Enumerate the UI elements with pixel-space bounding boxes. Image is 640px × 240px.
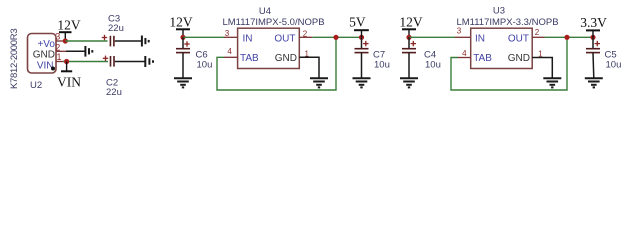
pin stub OUT (U4) xyxy=(299,36,312,38)
svg-text:3.3V: 3.3V xyxy=(580,15,607,30)
ground (down, C4) xyxy=(400,78,418,87)
svg-text:4: 4 xyxy=(227,47,232,56)
svg-text:GND: GND xyxy=(275,53,297,64)
pin name OUT (U3) xyxy=(508,34,529,45)
ground (down, C5) xyxy=(585,78,603,87)
capacitor C6 plus sign xyxy=(184,41,189,46)
capacitor C7 drop wire xyxy=(361,37,363,48)
junction node 3.3V (U3) xyxy=(590,35,595,40)
pin stub 2 (U2) xyxy=(56,50,66,52)
wire C6 to ground xyxy=(182,53,184,78)
svg-text:22u: 22u xyxy=(108,23,124,34)
U2 refdes label xyxy=(30,80,42,91)
svg-text:4: 4 xyxy=(462,49,467,58)
wire GND row (U2) xyxy=(66,50,85,52)
pin number 3 (U2) xyxy=(55,32,60,42)
capacitor C2 refdes label xyxy=(106,78,118,89)
svg-text:12V: 12V xyxy=(399,15,423,30)
capacitor C2 plus sign xyxy=(103,56,108,61)
pin name +Vo xyxy=(37,39,55,50)
capacitor C6 refdes label xyxy=(196,50,208,61)
12V supply label (left) xyxy=(57,17,81,32)
12V supply label (U4) xyxy=(169,15,193,30)
capacitor C3 plates xyxy=(110,36,114,47)
pin number 1 (U2) xyxy=(56,52,61,62)
12V supply label (U3) xyxy=(399,15,423,30)
ground (down, C7) xyxy=(353,78,371,87)
ground (down, U3 GND) xyxy=(543,78,561,87)
svg-text:GND: GND xyxy=(508,53,530,64)
capacitor C2 plates xyxy=(111,56,115,67)
ERC dot on VIN pin xyxy=(51,67,55,71)
pin stub IN (U3) xyxy=(455,36,471,38)
3.3V supply label xyxy=(580,15,607,30)
U4 body xyxy=(238,28,300,68)
connector U2 refdes text K7812-2000R3 xyxy=(9,29,20,89)
VIN net label xyxy=(57,75,81,90)
svg-text:VIN: VIN xyxy=(37,61,54,72)
5V supply label xyxy=(349,15,366,30)
svg-text:TAB: TAB xyxy=(473,53,492,64)
pin name TAB (U3) xyxy=(473,53,492,64)
svg-text:IN: IN xyxy=(475,34,485,45)
regulator U4 refdes label xyxy=(259,6,271,17)
svg-text:LM1117IMPX-3.3/NOPB: LM1117IMPX-3.3/NOPB xyxy=(456,17,558,28)
svg-text:LM1117IMPX-5.0/NOPB: LM1117IMPX-5.0/NOPB xyxy=(222,17,324,28)
capacitor C7 plates xyxy=(355,49,369,53)
pin stub 3 (U2) xyxy=(56,40,63,42)
capacitor C5 refdes label xyxy=(605,50,617,61)
pin name VIN (U2) xyxy=(37,61,54,72)
pin stub TAB (U3) xyxy=(458,57,471,59)
wire 12V to IN (U3) xyxy=(409,36,455,38)
capacitor C6 drop wire xyxy=(182,37,184,48)
capacitor C5 drop wire xyxy=(592,37,594,48)
svg-text:10u: 10u xyxy=(197,60,213,71)
capacitor C3 refdes label xyxy=(108,14,120,25)
wire OUT to 5V (U4) xyxy=(312,36,361,38)
pin name GND (U2) xyxy=(33,50,55,61)
capacitor C6 plates xyxy=(176,49,190,53)
svg-text:IN: IN xyxy=(243,34,253,45)
pin stub IN (U4) xyxy=(224,36,238,38)
wire C7 to ground xyxy=(361,53,363,78)
ground (right-pointing, GND row U2) xyxy=(85,46,92,57)
svg-text:OUT: OUT xyxy=(274,34,295,45)
pin number 3 (U4) xyxy=(225,29,230,38)
svg-text:GND: GND xyxy=(33,50,55,61)
12V supply bar symbol (U4) xyxy=(176,29,190,37)
pin number 2 (U2) xyxy=(55,43,60,53)
capacitor C5 plates xyxy=(586,49,600,53)
capacitor C3 plus sign xyxy=(102,35,107,40)
capacitor C2 value label 22u xyxy=(106,87,122,98)
wire OUT to 3.3V (U3) xyxy=(545,36,594,38)
capacitor C4 plates xyxy=(402,49,416,53)
wire C4 to ground xyxy=(408,53,410,78)
capacitor C5 plus sign xyxy=(595,41,600,46)
wire VIN row xyxy=(63,61,108,63)
pin number 4 (U3) xyxy=(462,49,467,58)
U3 value label LM1117IMPX-3.3/NOPB xyxy=(456,17,558,28)
VIN net bar symbol xyxy=(61,70,72,72)
pin number 4 (U4) xyxy=(227,47,232,56)
svg-text:3: 3 xyxy=(457,27,462,36)
pin number 2 (U4) xyxy=(303,29,308,38)
wire C3 to ground xyxy=(115,40,141,42)
VIN net stub down xyxy=(66,62,68,71)
capacitor C4 refdes label xyxy=(424,50,436,61)
wire +Vo row xyxy=(65,40,107,42)
junction node 12V/IN (U4) xyxy=(180,35,185,40)
junction node OUT/TAB (U3) xyxy=(564,35,569,40)
12V supply bar symbol (left) xyxy=(59,32,72,41)
junction node VIN xyxy=(64,59,69,64)
pin stub TAB (U4) xyxy=(224,56,238,58)
junction node OUT/TAB (U4) xyxy=(333,35,338,40)
pin name OUT (U4) xyxy=(274,34,295,45)
5V supply bar symbol xyxy=(354,30,369,37)
svg-text:5V: 5V xyxy=(349,15,366,30)
pin name IN (U4) xyxy=(243,34,253,45)
pin stub OUT (U3) xyxy=(532,36,544,38)
svg-text:10u: 10u xyxy=(606,60,622,71)
regulator U3 refdes label xyxy=(493,6,505,17)
svg-text:VIN: VIN xyxy=(57,75,81,90)
U3 body xyxy=(471,28,533,68)
capacitor C3 value label 22u xyxy=(108,23,124,34)
svg-text:U2: U2 xyxy=(30,80,42,91)
pin name TAB (U4) xyxy=(240,53,259,64)
capacitor C7 refdes label xyxy=(373,50,385,61)
capacitor C4 value label 10u xyxy=(425,60,441,71)
capacitor C7 value label 10u xyxy=(374,60,390,71)
ground (down, C6) xyxy=(174,78,192,87)
junction node 12V/+Vo xyxy=(63,38,68,43)
capacitor C5 value label 10u xyxy=(606,60,622,71)
wire GND pin to ground (U4) xyxy=(299,57,319,78)
svg-text:OUT: OUT xyxy=(508,34,529,45)
12V supply bar symbol (U3) xyxy=(402,29,416,37)
3.3V supply bar symbol xyxy=(586,30,600,37)
wire C5 to ground xyxy=(592,53,595,78)
pin number 2 (U3) xyxy=(535,28,540,37)
wire 12V to IN (U4) xyxy=(183,36,224,38)
svg-text:+Vo: +Vo xyxy=(37,39,55,50)
wire TAB loop (U4) xyxy=(217,37,336,90)
capacitor C4 plus sign xyxy=(411,41,416,46)
svg-text:2: 2 xyxy=(535,28,540,37)
svg-text:10u: 10u xyxy=(374,60,390,71)
svg-text:10u: 10u xyxy=(425,60,441,71)
svg-text:22u: 22u xyxy=(106,87,122,98)
ground (right-pointing, VIN row) xyxy=(145,56,153,67)
junction node 5V (U4) xyxy=(359,35,364,40)
svg-text:3: 3 xyxy=(225,29,230,38)
svg-text:TAB: TAB xyxy=(240,53,259,64)
svg-text:U3: U3 xyxy=(493,6,505,17)
pin number 3 (U3) xyxy=(457,27,462,36)
ground (down, U4 GND) xyxy=(310,78,328,87)
svg-text:1: 1 xyxy=(56,52,61,62)
wire GND pin to ground (U3) xyxy=(532,58,552,79)
pin name IN (U3) xyxy=(475,34,485,45)
svg-text:12V: 12V xyxy=(57,17,81,32)
ground (right-pointing, +Vo row) xyxy=(142,36,149,47)
U2 module body xyxy=(28,34,57,74)
svg-text:K7812-2000R3: K7812-2000R3 xyxy=(9,29,20,89)
pin stub 1 (U2) xyxy=(56,61,63,63)
U4 value label LM1117IMPX-5.0/NOPB xyxy=(222,17,324,28)
capacitor C7 plus sign xyxy=(363,41,368,46)
svg-text:U4: U4 xyxy=(259,6,271,17)
pin name GND (U3) xyxy=(508,53,530,64)
pin number 1 (U3) xyxy=(538,49,543,58)
wire C2 to ground xyxy=(115,61,145,63)
junction node 12V/IN (U3) xyxy=(406,35,411,40)
capacitor C6 value label 10u xyxy=(197,60,213,71)
capacitor C4 drop wire xyxy=(408,37,410,48)
pin number 1 (U4) xyxy=(304,49,309,58)
svg-text:12V: 12V xyxy=(169,15,193,30)
pin name GND (U4) xyxy=(275,53,297,64)
wire TAB loop (U3) xyxy=(451,37,567,90)
